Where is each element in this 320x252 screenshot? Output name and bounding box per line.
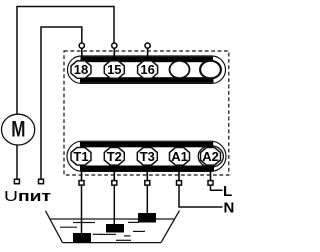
bottom bus bar upper [80,142,213,148]
motor M [2,114,35,145]
svg-text:M: M [11,116,25,141]
terminal T3 [137,148,157,166]
pin stub terminal 16 [147,48,149,58]
svg-text:T1: T1 [73,149,88,164]
svg-text:16: 16 [140,62,154,77]
pin stub terminal T3 [146,170,148,181]
pin stub terminal T1 [81,170,83,181]
pin stub terminal A2 [210,170,212,181]
pin circle above 16 [145,43,150,48]
terminal T1 [71,148,91,166]
pin square below T1 [79,181,84,186]
blank terminal 5 [200,61,221,79]
pin square below T2 [112,181,117,186]
pin stub terminal 15 [113,48,115,58]
pin square below A2 [208,181,213,186]
water ripple dash [93,233,102,235]
A2 outer ring [198,146,223,168]
svg-text:A1: A1 [171,149,188,164]
tank left wall [46,211,63,243]
device dashed box [64,51,229,175]
Uпит right pin [39,179,44,184]
wire: terminal 18 pin to Uпит right pin [41,27,82,179]
wire: T2 pin to electrode 2 [113,185,115,224]
wire: motor bottom to Uпит left pin [16,145,18,179]
wire: T1 pin to electrode 1 [81,185,83,234]
svg-text:L: L [223,183,232,200]
water ripple dash [116,239,131,241]
terminal T2 [104,148,124,166]
terminal 18 [71,61,91,78]
terminal A1 [170,148,190,166]
pin circle above 15 [112,43,117,48]
top terminal block outline [68,56,226,83]
terminal A2 [201,148,221,166]
tank bottom [63,242,162,244]
pin square below T3 [145,181,150,186]
water ripple dash [73,222,95,224]
electrode 3 (T3, highest) [138,213,156,223]
svg-text:T2: T2 [107,149,122,164]
blank terminal 4 [170,61,190,78]
svg-text:15: 15 [107,62,121,77]
pin circle above 18 [79,43,84,48]
water ripple dash [124,235,131,237]
svg-text:18: 18 [74,62,88,77]
terminal 16 [138,61,158,78]
svg-text:T3: T3 [140,149,155,164]
electrode 2 (T2, middle) [106,224,124,233]
water ripple dash [133,230,145,232]
pin square below A1 [177,181,182,186]
bottom terminal block outline [67,141,226,171]
water level line [50,218,175,220]
water ripple dash [60,226,77,228]
terminal 15 [104,61,124,78]
wire: T3 pin to electrode 3 [146,185,148,214]
tank right wall [161,211,180,243]
pin stub terminal A1 [178,170,180,181]
top bus bar upper [81,57,214,63]
Uпит left pin [14,179,19,184]
water ripple dash [100,233,116,235]
pin stub terminal T2 [113,170,115,181]
pin stub terminal 18 [81,48,83,58]
wire: motor top to terminal 15 pin [17,7,114,115]
svg-text:Uпит: Uпит [4,188,51,205]
wire: A1 pin to N [179,185,223,207]
bottom bus bar lower [80,166,214,172]
top bus bar lower [80,77,214,83]
water ripple dash [128,221,139,223]
svg-text:N: N [224,200,235,217]
wire: A2 pin to L [211,185,223,190]
svg-text:A2: A2 [202,149,219,164]
electrode 1 (T1, lowest) [73,233,91,243]
